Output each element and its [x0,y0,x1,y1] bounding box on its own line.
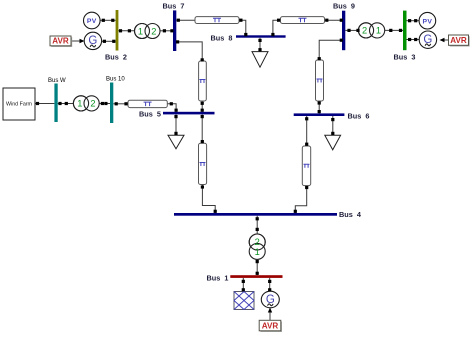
svg-text:1: 1 [138,26,143,36]
svg-text:1: 1 [77,99,82,109]
svg-text:1: 1 [376,26,381,36]
svg-text:Bus 4: Bus 4 [339,210,362,219]
svg-text:Bus 10: Bus 10 [106,76,125,82]
svg-text:2: 2 [90,99,95,109]
svg-text:Bus 3: Bus 3 [394,52,416,61]
svg-text:Bus W: Bus W [48,78,66,84]
svg-text:AVR: AVR [450,36,467,45]
svg-text:Bus 7: Bus 7 [163,1,185,10]
svg-text:2: 2 [362,26,367,36]
svg-text:1: 1 [255,247,260,257]
svg-text:Bus 9: Bus 9 [333,2,355,11]
svg-text:PV: PV [422,18,432,25]
svg-text:Bus 2: Bus 2 [105,52,127,61]
svg-text:PV: PV [87,18,97,25]
svg-text:Bus 1: Bus 1 [207,273,229,282]
svg-text:Bus 6: Bus 6 [348,111,370,120]
svg-text:2: 2 [255,237,260,247]
svg-text:Bus 8: Bus 8 [211,33,233,42]
svg-text:2: 2 [151,26,156,36]
svg-text:Bus 5: Bus 5 [139,109,161,118]
svg-text:Wind Farm: Wind Farm [6,102,32,108]
svg-text:AVR: AVR [52,37,69,46]
svg-text:AVR: AVR [262,322,279,331]
